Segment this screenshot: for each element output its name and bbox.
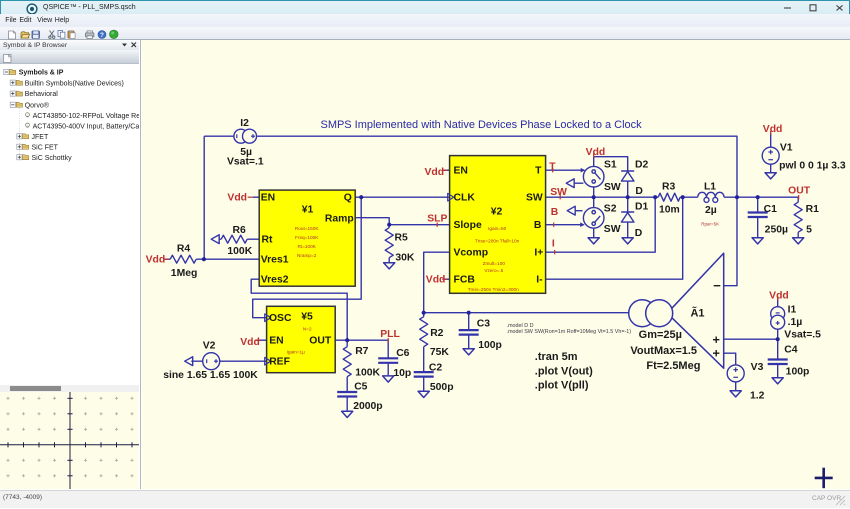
svg-text:C2: C2 [429,363,442,374]
svg-text:Freq=100K: Freq=100K [295,235,319,240]
svg-text:100p: 100p [478,340,502,351]
svg-text:Symbols & IP: Symbols & IP [19,70,64,77]
svg-text:R3: R3 [662,182,675,193]
svg-text:Vdd: Vdd [145,255,165,266]
svg-text:SiC FET: SiC FET [32,144,59,151]
svg-text:I+: I+ [534,248,543,259]
svg-text:T: T [535,166,542,177]
svg-text:SiC Schottky: SiC Schottky [32,155,73,162]
svg-text:Nramp=2: Nramp=2 [297,253,317,258]
svg-text:EN: EN [260,193,274,204]
svg-text:100K: 100K [227,246,252,257]
svg-text:D1: D1 [635,202,648,213]
svg-text:L1: L1 [704,182,716,193]
svg-text:Rt: Rt [261,235,272,246]
svg-text:C6: C6 [396,348,409,359]
svg-text:10p: 10p [393,368,411,379]
svg-text:500p: 500p [430,382,454,393]
svg-text:PLL: PLL [380,329,400,340]
svg-text:Qorvo®: Qorvo® [25,101,50,109]
svg-text:I: I [552,239,555,250]
svg-text:Vdd: Vdd [240,337,260,348]
svg-text:Trise=200n Tfall=10n: Trise=200n Tfall=10n [475,239,519,244]
svg-text:Behavioral: Behavioral [25,91,59,98]
svg-text:¥2: ¥2 [490,207,502,218]
svg-text:SW: SW [604,182,621,193]
svg-text:?: ? [100,31,104,38]
svg-text:Q: Q [344,193,352,204]
svg-text:C5: C5 [354,382,367,393]
svg-text:VoutMax=1.5: VoutMax=1.5 [630,345,697,357]
svg-text:OSC: OSC [269,313,292,324]
svg-text:Rt=100K: Rt=100K [297,244,316,249]
svg-text:SW: SW [550,187,567,198]
svg-text:Vdd: Vdd [227,193,247,204]
svg-text:2µ: 2µ [705,205,717,216]
svg-text:Vsat=.1: Vsat=.1 [227,157,264,168]
svg-text:Vdd: Vdd [585,147,605,158]
svg-text:I-: I- [536,275,543,286]
svg-text:Vres1: Vres1 [261,255,289,266]
svg-text:D: D [635,186,643,197]
svg-text:.tran 5m: .tran 5m [535,351,578,363]
svg-text:Ã1: Ã1 [690,307,704,320]
svg-text:D: D [635,228,643,239]
svg-text:R4: R4 [177,244,190,255]
svg-text:OUT: OUT [788,186,811,197]
svg-text:SW: SW [526,193,543,204]
svg-text:V2: V2 [202,341,215,352]
svg-text:Vdd: Vdd [769,291,789,302]
svg-text:Gm=25µ: Gm=25µ [638,329,681,341]
svg-text:ACT43950-400V Input, Battery/C: ACT43950-400V Input, Battery/Cap [33,123,139,130]
svg-text:Vzero=.5: Vzero=.5 [484,268,503,273]
svg-text:EN: EN [269,336,283,347]
svg-text:JFET: JFET [32,134,49,141]
svg-text:Ramp: Ramp [325,214,354,225]
svg-text:I1: I1 [787,305,796,316]
svg-text:250µ: 250µ [764,225,787,236]
svg-text:100p: 100p [785,367,809,378]
svg-text:.plot V(pll): .plot V(pll) [535,380,589,392]
svg-text:N=2: N=2 [303,327,312,332]
svg-text:D2: D2 [635,160,648,171]
svg-text:C1: C1 [763,204,776,215]
svg-text:R7: R7 [355,346,368,357]
svg-text:B: B [534,220,542,231]
svg-text:.plot V(out): .plot V(out) [535,366,593,378]
svg-text:SMPS Implemented with Native D: SMPS Implemented with Native Devices Pha… [320,119,642,131]
svg-text:2000p: 2000p [353,401,382,412]
svg-text:.model SW SW(Ron=1m Roff=10Meg: .model SW SW(Ron=1m Roff=10Meg Vt=1.5 Vh… [506,329,631,335]
svg-text:Builtin Symbols(Native Devices: Builtin Symbols(Native Devices) [25,80,124,87]
svg-text:Rout=150K: Rout=150K [295,226,319,231]
svg-text:Igain=1µ: Igain=1µ [286,350,305,355]
svg-text:1.2: 1.2 [750,391,765,402]
svg-text:sine 1.65 1.65 100K: sine 1.65 1.65 100K [163,370,258,381]
svg-text:10m: 10m [659,205,680,216]
svg-text:R6: R6 [232,225,245,236]
svg-text:1Meg: 1Meg [171,268,198,279]
svg-text:R2: R2 [430,328,443,339]
svg-text:5: 5 [806,225,812,236]
svg-text:V3: V3 [750,362,763,373]
svg-text:Vsat=.5: Vsat=.5 [784,330,821,341]
svg-text:SW: SW [604,224,621,235]
svg-text:30K: 30K [395,253,415,264]
svg-text:Vres2: Vres2 [261,275,289,286]
svg-text:Vdd: Vdd [763,124,783,135]
svg-text:Vcomp: Vcomp [453,248,488,259]
svg-text:.1µ: .1µ [787,317,802,328]
svg-text:C3: C3 [477,319,490,330]
svg-text:Tmin=250n Tmin2=300n: Tmin=250n Tmin2=300n [467,287,518,292]
svg-text:100K: 100K [355,368,380,379]
svg-text:S1: S1 [604,160,617,171]
svg-text:I2: I2 [240,118,249,129]
svg-text:¥5: ¥5 [301,312,313,323]
svg-text:Rpar=5K: Rpar=5K [701,222,719,227]
svg-text:75K: 75K [430,347,450,358]
svg-text:EN: EN [453,166,467,177]
svg-text:pwl 0 0 1µ 3.3: pwl 0 0 1µ 3.3 [779,161,846,172]
svg-text:REF: REF [269,357,290,368]
svg-text:Zmult=100: Zmult=100 [482,261,505,266]
svg-text:Vdd: Vdd [424,167,444,178]
svg-text:R5: R5 [394,233,407,244]
svg-text:C4: C4 [784,345,797,356]
svg-text:R1: R1 [805,204,818,215]
svg-text:Ft=2.5Meg: Ft=2.5Meg [646,360,700,372]
svg-text:OUT: OUT [309,336,332,347]
svg-text:¥1: ¥1 [301,205,313,216]
svg-text:CLK: CLK [453,193,475,204]
svg-text:FCB: FCB [453,275,475,286]
svg-text:V1: V1 [780,143,793,154]
svg-text:S2: S2 [604,204,617,215]
svg-text:Igain=50: Igain=50 [488,226,507,231]
svg-text:B: B [551,207,559,218]
svg-text:Vdd: Vdd [426,275,446,286]
svg-text:ACT43850-102-RFPoL Voltage Reg: ACT43850-102-RFPoL Voltage Regu [33,113,139,120]
svg-text:Slope: Slope [453,220,481,231]
